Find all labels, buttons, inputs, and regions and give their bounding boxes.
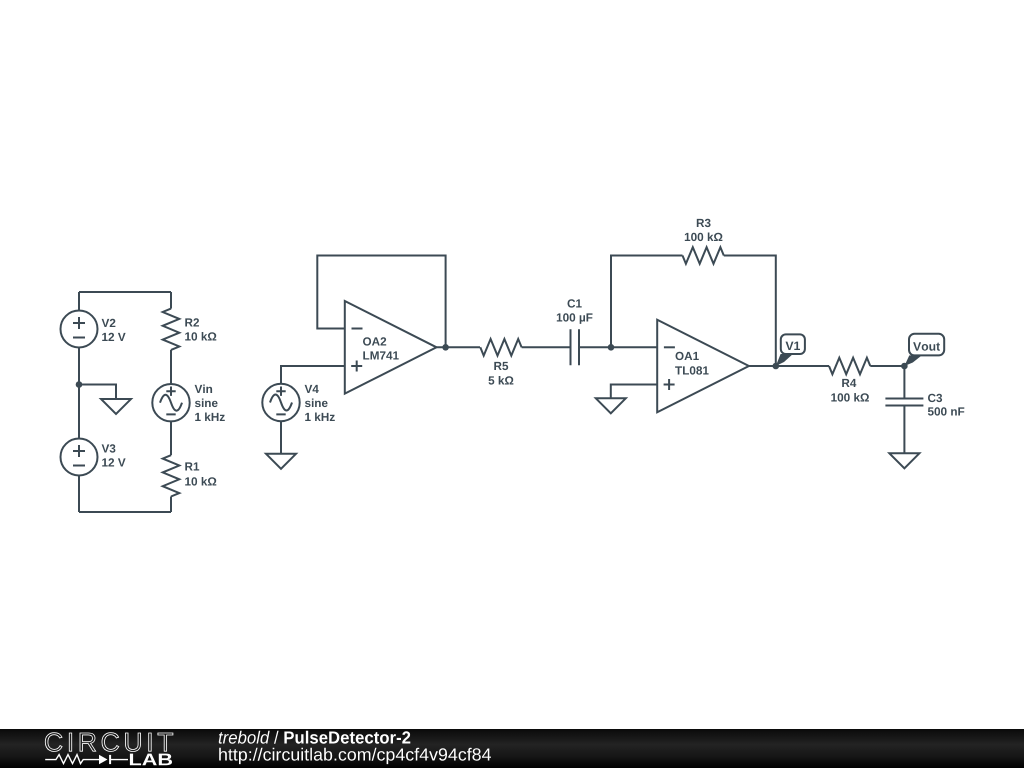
node C1 / OA1 minus input junction	[608, 344, 658, 351]
node junction V2/V3/ground	[76, 381, 83, 388]
CircuitLab logo CIRCUIT	[45, 733, 173, 752]
node Vout junction	[901, 363, 908, 370]
voltage source V3 12 V	[61, 385, 126, 513]
resistor R5 5 kOhm	[480, 339, 570, 385]
voltage source V2 12 V	[61, 292, 126, 385]
capacitor C3 500 nF	[885, 366, 964, 453]
voltage source Vin sine 1 kHz	[152, 384, 225, 421]
CircuitLab logo resistor-diode symbol and LAB	[45, 754, 172, 766]
footer title trebold / PulseDetector-2	[219, 731, 410, 744]
resistor R4 100 kOhm	[776, 358, 905, 402]
node OA2 output junction	[437, 344, 481, 351]
ground at V2/V3 junction	[79, 385, 131, 415]
wire OA2 feedback loop	[317, 256, 445, 348]
flag label Vout	[904, 334, 944, 366]
op-amp OA1 TL081	[657, 320, 749, 413]
footer url	[219, 748, 491, 764]
flag label V1	[776, 334, 805, 366]
wire bottom rail of left source loop	[79, 511, 171, 513]
ground below V4	[266, 421, 296, 469]
footer bar	[0, 729, 1024, 768]
wire R3 feedback loop	[611, 256, 776, 367]
ground at OA1 plus input	[596, 385, 657, 414]
resistor R3 100 kOhm	[683, 219, 724, 264]
resistor R2 10 kOhm	[163, 292, 217, 384]
op-amp OA2 LM741	[345, 301, 437, 394]
capacitor C1 100 uF	[557, 299, 611, 365]
node OA1 output junction V1	[749, 363, 779, 370]
wire top rail of left source loop	[79, 291, 171, 293]
resistor R1 10 kOhm	[163, 422, 217, 513]
ground below C3	[889, 453, 919, 468]
voltage source V4 sine 1 kHz	[262, 366, 345, 421]
